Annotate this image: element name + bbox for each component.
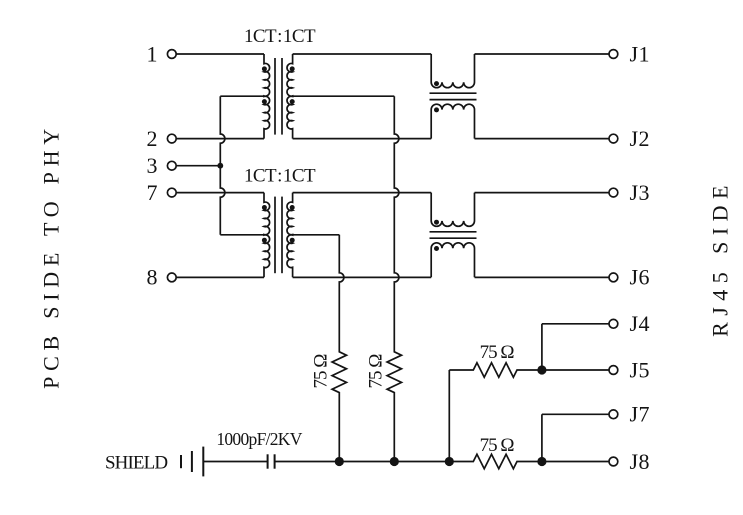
svg-text:1CT : 1CT: 1CT : 1CT: [244, 166, 316, 187]
svg-text:J3: J3: [630, 180, 651, 205]
svg-text:J8: J8: [630, 449, 651, 474]
svg-text:1000pF/2KV: 1000pF/2KV: [216, 429, 302, 449]
svg-text:1: 1: [147, 41, 158, 66]
svg-text:1CT : 1CT: 1CT : 1CT: [244, 26, 316, 47]
svg-text:7: 7: [147, 180, 158, 205]
svg-text:75 Ω: 75 Ω: [480, 435, 515, 456]
svg-text:2: 2: [147, 126, 158, 151]
svg-text:RJ45 SIDE: RJ45 SIDE: [708, 179, 733, 337]
svg-text:75 Ω: 75 Ω: [480, 342, 515, 363]
svg-text:75 Ω: 75 Ω: [310, 354, 331, 389]
svg-text:J2: J2: [630, 126, 651, 151]
svg-text:75 Ω: 75 Ω: [365, 354, 386, 389]
svg-text:3: 3: [147, 153, 158, 178]
svg-text:SHIELD: SHIELD: [105, 453, 167, 474]
svg-text:J4: J4: [630, 311, 651, 336]
svg-text:J6: J6: [630, 265, 651, 290]
svg-text:J5: J5: [630, 357, 651, 382]
svg-text:J7: J7: [630, 402, 651, 427]
svg-text:PCB SIDE TO PHY: PCB SIDE TO PHY: [39, 123, 64, 389]
svg-text:J1: J1: [630, 41, 651, 66]
svg-text:8: 8: [147, 265, 158, 290]
